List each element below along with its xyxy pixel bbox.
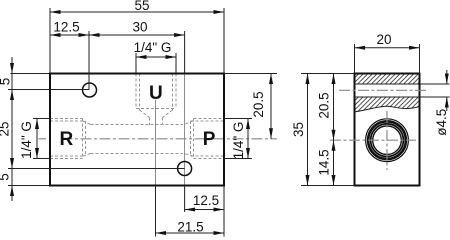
svg-text:14.5: 14.5 xyxy=(317,149,332,175)
svg-text:1/4" G: 1/4" G xyxy=(231,122,246,160)
svg-text:55: 55 xyxy=(134,0,149,13)
svg-text:12.5: 12.5 xyxy=(53,20,79,35)
svg-text:R: R xyxy=(60,129,74,150)
svg-text:U: U xyxy=(149,83,163,104)
svg-text:ø4.5: ø4.5 xyxy=(434,109,449,136)
svg-text:12.5: 12.5 xyxy=(193,193,219,208)
svg-text:30: 30 xyxy=(132,20,147,35)
svg-text:20: 20 xyxy=(376,32,391,47)
svg-text:35: 35 xyxy=(291,122,306,137)
svg-text:20.5: 20.5 xyxy=(251,91,266,117)
svg-text:21.5: 21.5 xyxy=(177,220,203,235)
svg-text:1/4" G: 1/4" G xyxy=(134,40,172,55)
svg-text:20.5: 20.5 xyxy=(317,92,332,118)
svg-text:25: 25 xyxy=(0,121,12,136)
svg-text:5: 5 xyxy=(0,78,13,86)
svg-text:5: 5 xyxy=(0,173,12,181)
svg-text:1/4" G: 1/4" G xyxy=(19,121,34,159)
svg-text:P: P xyxy=(203,129,216,150)
